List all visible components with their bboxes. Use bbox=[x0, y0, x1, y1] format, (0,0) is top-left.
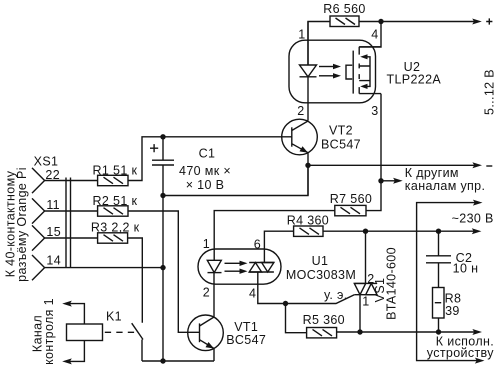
wire: K1 contact bottom to rail bbox=[141, 340, 143, 362]
arrow: minus supply terminal bbox=[472, 162, 482, 168]
resistor R1 bbox=[98, 175, 128, 185]
label: R4 360 bbox=[287, 213, 329, 227]
node: junction base line / C1 top bbox=[160, 134, 165, 139]
node: junction ground rail / C1 vertical bbox=[160, 358, 165, 363]
wire: C1 bottom to VT2 emitter node bbox=[163, 165, 308, 195]
label: BC547 (VT1) bbox=[226, 333, 266, 347]
node: junction U2 pin3 / to other channels bbox=[378, 178, 383, 183]
svg-text:R6 560: R6 560 bbox=[323, 2, 365, 16]
thyristor: U1 internal triac bbox=[249, 263, 274, 273]
wire: K1 coil bottom lead with arrow bbox=[62, 341, 84, 365]
diode: U1 internal LED bbox=[207, 260, 221, 272]
svg-text:39: 39 bbox=[445, 304, 460, 318]
wire: ribbon cable double lines bbox=[66, 178, 71, 268]
label: TLP222A bbox=[387, 73, 442, 87]
connector: XS1 pin 14 chevron bbox=[32, 255, 45, 280]
svg-text:2: 2 bbox=[203, 285, 210, 299]
label: К 40-контактному (rotated) bbox=[4, 170, 18, 277]
wire: +5V top rail from R6 to arrow bbox=[359, 21, 474, 23]
node: junction mains line 2 / snubber bbox=[436, 229, 441, 234]
wire: minus rail to arrow bbox=[308, 164, 475, 166]
connector: XS1 pin 11 chevron bbox=[32, 198, 45, 223]
resistor R6 bbox=[330, 16, 359, 27]
label: U1 pin 6 bbox=[254, 238, 261, 252]
label: ~230 В bbox=[452, 211, 494, 225]
label: C2 bbox=[456, 251, 473, 265]
label: у. э. bbox=[324, 288, 348, 302]
label: U1 pin 4 bbox=[249, 286, 256, 300]
label: R6 560 bbox=[323, 2, 365, 16]
wire: mains line 1 elbow to arrow and down to load bbox=[417, 203, 477, 361]
svg-text:VT2: VT2 bbox=[329, 124, 353, 138]
label: + terminal bbox=[486, 18, 492, 24]
arrow: mains wire 1 terminal bbox=[473, 200, 483, 206]
wire: gate node down to R5 bbox=[286, 304, 307, 333]
node: junction VS1 top / mains line 2 bbox=[363, 229, 368, 234]
label: R8 bbox=[445, 291, 462, 305]
wire: arrow to other control channels bbox=[381, 178, 403, 184]
arrow: load wire 1 terminal bbox=[472, 329, 482, 335]
node: junction R8 / load line bbox=[436, 329, 441, 334]
resistor R5 bbox=[307, 328, 337, 338]
svg-text:К другим: К другим bbox=[405, 166, 459, 180]
svg-text:10 н: 10 н bbox=[453, 262, 479, 276]
svg-text:K1: K1 bbox=[106, 310, 122, 324]
wire: snubber branch from mains line 2 bbox=[438, 231, 440, 256]
label: R7 560 bbox=[330, 192, 372, 206]
svg-text:разъёму Orange Pi: разъёму Orange Pi bbox=[15, 167, 29, 282]
svg-text:VT1: VT1 bbox=[234, 320, 258, 334]
svg-text:XS1: XS1 bbox=[34, 155, 59, 169]
label: pin 11 bbox=[46, 198, 60, 212]
svg-text:R7 560: R7 560 bbox=[330, 192, 372, 206]
relay K1 coil bbox=[67, 324, 103, 341]
label: × 10 В bbox=[186, 178, 225, 192]
svg-text:U1: U1 bbox=[312, 254, 329, 268]
svg-text:11: 11 bbox=[46, 198, 60, 212]
transistor VT1 bbox=[188, 315, 224, 351]
label: C1 bbox=[199, 147, 216, 161]
svg-text:~230 В: ~230 В bbox=[452, 211, 494, 225]
connector: XS1 pin 15 chevron bbox=[32, 225, 45, 250]
svg-text:470 мк ×: 470 мк × bbox=[179, 164, 231, 178]
label: R5 360 bbox=[303, 313, 345, 327]
transistor: U2 internal dual MOSFET bbox=[346, 47, 381, 94]
label: U1 pin 2 bbox=[203, 285, 210, 299]
svg-text:R2 51 к: R2 51 к bbox=[93, 194, 138, 208]
label: разъёму Orange Pi (rotated) bbox=[15, 167, 29, 282]
svg-text:MOC3083M: MOC3083M bbox=[286, 268, 356, 282]
label: 470 мк × bbox=[179, 164, 231, 178]
label: VT2 bbox=[329, 124, 353, 138]
resistor R3 bbox=[98, 233, 128, 243]
switch: K1 contact blade bbox=[132, 323, 143, 339]
wire: pin 15 to R3 bbox=[45, 237, 98, 239]
arrow: + supply terminal bbox=[472, 19, 482, 25]
label: pin 15 bbox=[46, 225, 61, 239]
label: VS1 pin 1 bbox=[362, 294, 369, 308]
wire: U2 pin3 down to R7 bbox=[366, 94, 381, 211]
wire: R2 to VT1 base bbox=[128, 211, 200, 332]
label: C1 plus polarity bbox=[150, 144, 158, 152]
label: XS1 bbox=[34, 155, 59, 169]
svg-text:1: 1 bbox=[203, 237, 210, 251]
label: U2 bbox=[404, 60, 421, 74]
wire: U2 optical arrows bbox=[319, 64, 341, 79]
label: MOC3083M bbox=[286, 268, 356, 282]
svg-text:4: 4 bbox=[249, 286, 256, 300]
label: контроля 1 (rotated) bbox=[42, 298, 56, 365]
capacitor C1 bbox=[152, 137, 174, 196]
wire: R7 left to U1 pin1 bbox=[214, 211, 335, 261]
svg-text:TLP222A: TLP222A bbox=[387, 73, 442, 87]
op-amp U1 body (optocoupler MOC3083M) bbox=[198, 249, 281, 284]
label: К исполн. bbox=[436, 335, 494, 349]
wire: bottom ground rail bbox=[142, 360, 214, 362]
label: устройству bbox=[427, 346, 494, 360]
svg-text:устройству: устройству bbox=[427, 346, 494, 360]
label: 10 н bbox=[453, 262, 479, 276]
label: VS1 pin 2 bbox=[367, 272, 374, 286]
svg-text:BC547: BC547 bbox=[226, 333, 266, 347]
node: junction C1 bottom bbox=[160, 193, 165, 198]
label: К другим каналам упр. bbox=[405, 166, 486, 193]
label: U1 pin 1 bbox=[203, 237, 210, 251]
node: junction +rail / U2 pin4 bbox=[378, 19, 383, 24]
label: 5...12 В (rotated) bbox=[483, 69, 497, 115]
label: BC547 (VT2) bbox=[321, 138, 361, 152]
label: R2 51 к bbox=[93, 194, 138, 208]
svg-text:R3 2,2 к: R3 2,2 к bbox=[91, 221, 140, 235]
label: U2 pin 3 bbox=[371, 104, 378, 118]
wire: VT1 emitter to ground rail bbox=[213, 349, 215, 362]
svg-text:R5 360: R5 360 bbox=[303, 313, 345, 327]
wire: R6 left to U2 pin1 bbox=[308, 22, 330, 66]
svg-text:R4 360: R4 360 bbox=[287, 213, 329, 227]
svg-text:× 10 В: × 10 В bbox=[186, 178, 225, 192]
node: junction pin4 / gate / R5 bbox=[283, 301, 288, 306]
svg-text:15: 15 bbox=[46, 225, 61, 239]
label: BTA140-600 (rotated) bbox=[385, 247, 399, 320]
resistor R7 bbox=[335, 205, 366, 215]
wire: pin 14 to ground vertical bbox=[45, 267, 163, 269]
svg-text:5...12 В: 5...12 В bbox=[483, 69, 497, 115]
svg-text:2: 2 bbox=[297, 104, 304, 118]
label: K1 bbox=[106, 310, 122, 324]
wire: U1 pin4 down and right to gate node bbox=[258, 272, 355, 304]
wire: pin 11 to R2 bbox=[45, 210, 98, 212]
wire: U1 optical arrows bbox=[225, 261, 248, 274]
resistor R2 bbox=[98, 206, 128, 216]
svg-text:22: 22 bbox=[45, 168, 60, 182]
svg-text:14: 14 bbox=[46, 254, 61, 268]
diode: U2 internal LED bbox=[300, 22, 317, 121]
label: pin 14 bbox=[46, 254, 61, 268]
wire: pin 22 to R1 bbox=[45, 180, 98, 182]
arrow: mains wire 2 terminal bbox=[472, 228, 482, 234]
label: U2 pin 2 bbox=[297, 104, 304, 118]
label: U2 pin 4 bbox=[371, 28, 378, 42]
label: U2 pin 1 bbox=[298, 28, 305, 42]
label: VT1 bbox=[234, 320, 258, 334]
svg-text:6: 6 bbox=[254, 238, 261, 252]
node: junction pin14 / ground vertical bbox=[160, 265, 165, 270]
svg-text:BTA140-600: BTA140-600 bbox=[385, 247, 399, 320]
svg-text:C1: C1 bbox=[199, 147, 216, 161]
svg-text:BC547: BC547 bbox=[321, 138, 361, 152]
wire: load line 1 from R5 to arrow bbox=[337, 331, 475, 333]
arrow: load wire 2 terminal bbox=[475, 358, 485, 364]
svg-text:1: 1 bbox=[362, 294, 369, 308]
wire: K1 coil top lead with arrow bbox=[62, 301, 84, 324]
wire: U1 pin6 to R4 bbox=[264, 231, 293, 262]
wire: mains line 2 from R4 to arrow bbox=[323, 230, 474, 232]
resistor R4 bbox=[294, 226, 323, 236]
svg-text:контроля 1: контроля 1 bbox=[42, 298, 56, 365]
label: − terminal bbox=[486, 165, 492, 167]
op-amp U2 body (photorelay TLP222A) bbox=[289, 40, 376, 103]
svg-text:у. э.: у. э. bbox=[324, 288, 348, 302]
label: VS1 (rotated) bbox=[373, 278, 387, 303]
svg-text:3: 3 bbox=[371, 104, 378, 118]
wire: K1 mechanical link (dashed) bbox=[105, 331, 134, 333]
resistor R8 bbox=[433, 288, 445, 319]
svg-text:4: 4 bbox=[371, 28, 378, 42]
node: junction VT2 emitter / minus rail bbox=[305, 163, 310, 168]
capacitor C2 bbox=[426, 256, 451, 288]
wire: ground vertical from C1 bottom to bottom rail bbox=[162, 196, 164, 362]
wire: U2 pin4 from top rail junction bbox=[359, 22, 381, 48]
wire: VT1 collector to U1 pin2 bbox=[213, 273, 215, 317]
connector: XS1 pin 22 chevron bbox=[32, 168, 45, 193]
label: pin 22 bbox=[45, 168, 60, 182]
wire: VT2 emitter to minus rail junction bbox=[307, 153, 309, 196]
node: junction VS1 bottom / load line bbox=[357, 329, 362, 334]
wire: R8 bottom to load line bbox=[438, 318, 440, 332]
label: U1 bbox=[312, 254, 329, 268]
wire: VT2 base line from R1 bbox=[128, 137, 292, 181]
transistor VT2 bbox=[282, 119, 318, 155]
label: 39 bbox=[445, 304, 460, 318]
thyristor VS1 (triac BTA140-600) bbox=[354, 231, 377, 332]
wire: R3 to K1 contact bbox=[128, 238, 143, 323]
label: Канал (rotated) bbox=[31, 315, 45, 352]
svg-text:каналам упр.: каналам упр. bbox=[405, 179, 486, 193]
svg-text:R1 51 к: R1 51 к bbox=[93, 163, 138, 177]
label: R3 2,2 к bbox=[91, 221, 140, 235]
label: R1 51 к bbox=[93, 163, 138, 177]
